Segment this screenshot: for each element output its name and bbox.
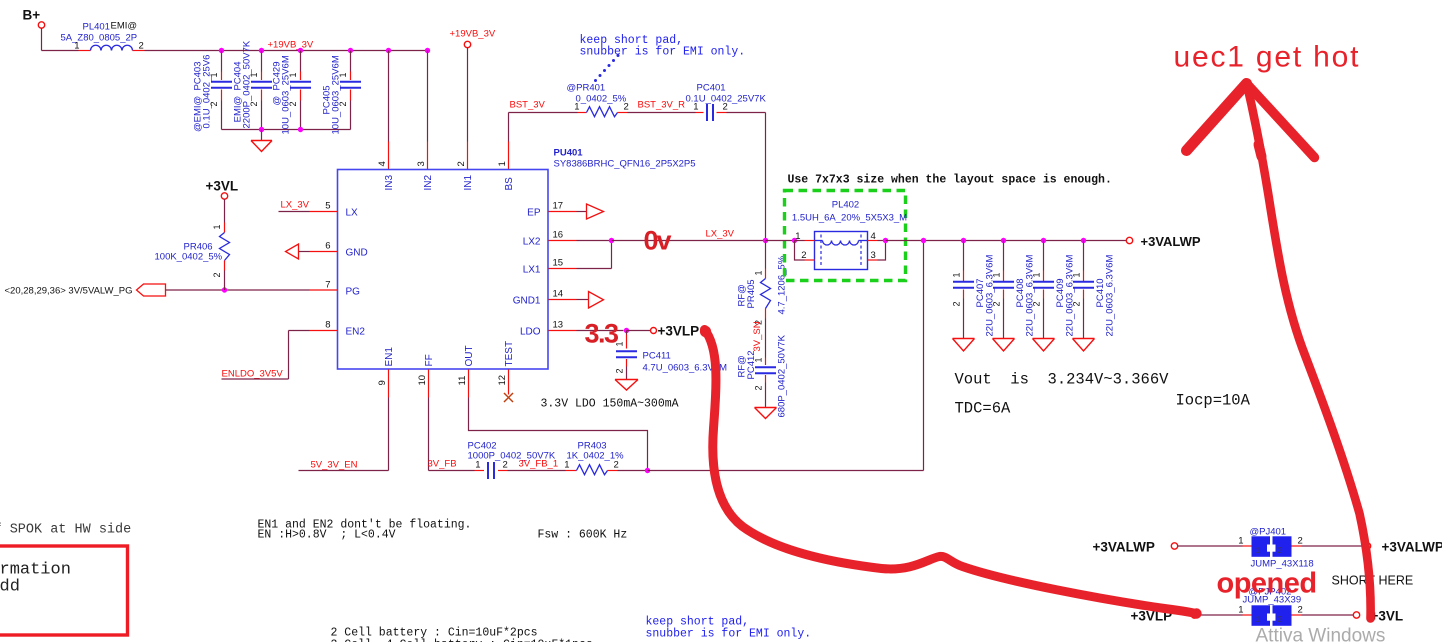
net label BST_3V bbox=[510, 100, 546, 111]
svg-text:LX1: LX1 bbox=[523, 265, 541, 276]
ground PC411 bbox=[615, 380, 638, 391]
net label 5V_3V_EN bbox=[299, 460, 389, 471]
ground input caps bbox=[251, 130, 272, 152]
svg-text:1: 1 bbox=[212, 224, 222, 229]
wire PL402 pin2 link bbox=[795, 241, 815, 261]
note info box bbox=[0, 546, 128, 635]
svg-text:2: 2 bbox=[754, 385, 764, 390]
capacitor PC404 bbox=[233, 40, 273, 129]
svg-text:GND1: GND1 bbox=[513, 296, 541, 307]
wire PR403 to FB node bbox=[608, 470, 648, 472]
pin 3 IN2 bbox=[416, 161, 434, 190]
note Fsw bbox=[538, 529, 628, 542]
power terminal +3VLP bbox=[651, 324, 700, 339]
svg-text:2: 2 bbox=[614, 460, 619, 471]
svg-text:2: 2 bbox=[992, 301, 1002, 306]
off-page connector 3V/5VALW_PG bbox=[5, 284, 338, 297]
svg-text:PL402: PL402 bbox=[832, 200, 859, 211]
wire OUT pin11 bbox=[469, 370, 648, 471]
note TDC bbox=[955, 400, 1012, 418]
svg-text:3: 3 bbox=[871, 250, 876, 261]
power terminal +3VL bbox=[1353, 609, 1403, 624]
pin 9 EN1 bbox=[377, 347, 395, 386]
svg-text:2: 2 bbox=[624, 102, 629, 113]
svg-text:3V_SN: 3V_SN bbox=[752, 321, 763, 351]
node junction on rail x427 bbox=[425, 48, 430, 53]
svg-text:3: 3 bbox=[416, 161, 427, 166]
node junction on rail x350 bbox=[348, 48, 353, 53]
svg-text:PC411: PC411 bbox=[643, 351, 671, 362]
note keep short pad top bbox=[580, 34, 746, 59]
wire EN1 pin9 bbox=[388, 370, 390, 471]
node junction FB tap bbox=[921, 238, 926, 243]
wire rail to IN2 bbox=[427, 51, 429, 170]
resistor PR403 bbox=[564, 441, 624, 475]
svg-text:6: 6 bbox=[325, 241, 330, 252]
svg-text:PR405: PR405 bbox=[746, 279, 757, 308]
svg-text:1: 1 bbox=[564, 460, 569, 471]
wire PL402 pin4 stub bbox=[868, 240, 886, 242]
power terminal +3VALWP left bbox=[1093, 540, 1178, 555]
pin 1 BS bbox=[497, 161, 515, 190]
pin 8 EN2 bbox=[325, 320, 365, 338]
annotation arrowhead right bbox=[1247, 84, 1315, 158]
highlight box PL402 bbox=[785, 191, 906, 281]
wire BS pin to PR401 bbox=[509, 113, 587, 170]
node junction PL402 pin1 bbox=[792, 238, 797, 243]
svg-text:1: 1 bbox=[74, 41, 79, 52]
node junction LDO bbox=[624, 328, 629, 333]
capacitor PC408 bbox=[992, 241, 1036, 339]
svg-text:5: 5 bbox=[325, 201, 330, 212]
svg-text:IN2: IN2 bbox=[423, 175, 434, 191]
node junction PC410 bbox=[1081, 238, 1086, 243]
svg-text:1: 1 bbox=[1238, 536, 1243, 547]
arrow pin17 EP bbox=[549, 204, 604, 219]
annotation 3.3 bbox=[585, 319, 620, 349]
svg-text:BST_3V: BST_3V bbox=[510, 100, 546, 111]
node junction bottom rail x300 bbox=[298, 127, 303, 132]
jumper PJ401 bbox=[1238, 527, 1314, 570]
svg-text:GND: GND bbox=[346, 248, 368, 259]
svg-text:dd: dd bbox=[0, 578, 20, 597]
capacitor PC405 bbox=[322, 51, 362, 135]
node junction on rail x300 bbox=[298, 48, 303, 53]
wire LDO to +3VLP bbox=[627, 330, 651, 332]
svg-text:1: 1 bbox=[693, 102, 698, 113]
svg-text:PU401: PU401 bbox=[554, 148, 584, 159]
svg-text:Use 7x7x3 size when the layout: Use 7x7x3 size when the layout space is … bbox=[788, 174, 1112, 187]
wire LX to PL402 pin1 bbox=[766, 240, 795, 242]
svg-text:100K_0402_5%: 100K_0402_5% bbox=[155, 252, 223, 263]
svg-text:2: 2 bbox=[1298, 605, 1303, 616]
svg-text:TEST: TEST bbox=[504, 341, 515, 367]
svg-text:680P_0402_50V7K: 680P_0402_50V7K bbox=[777, 334, 788, 417]
annotation arrowhead left bbox=[1187, 84, 1247, 151]
wire PL401 to +19VB_3V rail bbox=[133, 50, 428, 52]
resistor PR401 bbox=[567, 83, 629, 117]
pin 6 GND bbox=[325, 241, 368, 259]
node junction PC407 bbox=[961, 238, 966, 243]
svg-text:2: 2 bbox=[952, 301, 962, 306]
resistor PR406 bbox=[155, 199, 230, 290]
svg-text:1: 1 bbox=[475, 460, 480, 471]
inductor PL401 bbox=[61, 21, 144, 52]
arrow pin14 GND1 bbox=[549, 292, 604, 309]
ground PC407 bbox=[953, 339, 975, 352]
capacitor PC401 bbox=[686, 83, 767, 122]
ground PC412 bbox=[755, 408, 777, 419]
svg-text:PL401: PL401 bbox=[83, 22, 110, 33]
svg-text:IN1: IN1 bbox=[463, 175, 474, 191]
svg-text:@PJ401: @PJ401 bbox=[1250, 527, 1287, 538]
svg-text:FF: FF bbox=[424, 354, 435, 366]
svg-text:+19VB_3V: +19VB_3V bbox=[268, 40, 314, 51]
pin 12 TEST no-connect bbox=[504, 370, 513, 403]
svg-text:ENLDO_3V5V: ENLDO_3V5V bbox=[222, 369, 284, 380]
svg-text:22U_0603_6.3V6M: 22U_0603_6.3V6M bbox=[1025, 255, 1036, 337]
wire PR401 to PC401 bbox=[618, 112, 704, 114]
svg-text:16: 16 bbox=[553, 230, 564, 241]
svg-text:1: 1 bbox=[1238, 605, 1243, 616]
svg-text:EMI@: EMI@ bbox=[111, 21, 138, 32]
svg-text:Vout is 3.234V~3.366V: Vout is 3.234V~3.366V bbox=[955, 371, 1170, 389]
svg-text:3V_FB_1: 3V_FB_1 bbox=[519, 459, 559, 470]
svg-text:10U_0603_25V6M: 10U_0603_25V6M bbox=[281, 55, 292, 134]
svg-text:Iocp=10A: Iocp=10A bbox=[1176, 392, 1251, 410]
svg-text:uec1 get hot: uec1 get hot bbox=[1174, 41, 1361, 74]
power terminal +3VLP bottom bbox=[1131, 609, 1198, 624]
net label ENLDO_3V5V bbox=[222, 331, 338, 380]
pin 11 OUT bbox=[457, 345, 475, 385]
svg-text:EP: EP bbox=[527, 208, 541, 219]
svg-text:LDO: LDO bbox=[520, 327, 541, 338]
svg-text:2: 2 bbox=[1298, 536, 1303, 547]
annotation opened bbox=[1217, 568, 1317, 600]
svg-text:1: 1 bbox=[574, 102, 579, 113]
svg-text:5A_Z80_0805_2P: 5A_Z80_0805_2P bbox=[61, 33, 138, 44]
svg-text:7: 7 bbox=[325, 280, 330, 291]
svg-text:opened: opened bbox=[1217, 568, 1317, 600]
pin 4 IN3 bbox=[377, 161, 395, 190]
svg-text:3 Cell, 4 Cell battery : Cin=1: 3 Cell, 4 Cell battery : Cin=10uF*1pcs bbox=[331, 639, 593, 642]
wire PJ401 to +3VALW bbox=[1292, 545, 1365, 547]
wire +3VALWP to PJ401 bbox=[1178, 545, 1252, 547]
svg-text:2: 2 bbox=[1032, 301, 1042, 306]
wire +19VB_3V to IN1 bbox=[467, 48, 469, 170]
wire B+ to PL401 bbox=[42, 28, 91, 50]
wire PC402 to PR403 bbox=[498, 470, 577, 472]
net label LX_3V pin5 bbox=[279, 200, 338, 212]
svg-text:3V_FB: 3V_FB bbox=[428, 459, 457, 470]
svg-text:1: 1 bbox=[497, 161, 508, 166]
svg-text:22U_0603_6.3V6M: 22U_0603_6.3V6M bbox=[1065, 255, 1076, 337]
svg-text:1: 1 bbox=[1256, 545, 1261, 555]
wire PJP402 to +3VL bbox=[1292, 614, 1354, 616]
svg-text:1: 1 bbox=[992, 272, 1002, 277]
ground PC409 bbox=[1033, 339, 1055, 352]
svg-text:2: 2 bbox=[1072, 301, 1082, 306]
pin 14 GND1 bbox=[513, 289, 563, 307]
svg-text:0_0402_5%: 0_0402_5% bbox=[576, 94, 627, 105]
ground arrow pin6 GND bbox=[286, 244, 338, 259]
svg-text:2200P_0402_50V7K: 2200P_0402_50V7K bbox=[242, 40, 253, 128]
annotation swoosh bbox=[700, 326, 1202, 619]
pin 2 IN1 bbox=[456, 161, 474, 190]
svg-text:IN3: IN3 bbox=[384, 175, 395, 191]
node junction bottom rail x261 bbox=[259, 127, 264, 132]
svg-text:+3VL: +3VL bbox=[1371, 609, 1404, 624]
svg-text:14: 14 bbox=[553, 289, 564, 300]
wire LX1 pin15 bbox=[549, 241, 612, 269]
capacitor PC407 bbox=[952, 241, 996, 339]
wire PC401 to LX node bbox=[717, 113, 766, 241]
ground PC408 bbox=[993, 339, 1015, 352]
svg-text:8: 8 bbox=[325, 320, 330, 331]
svg-text:2: 2 bbox=[503, 460, 508, 471]
wire PL402 pin3 link bbox=[868, 241, 886, 261]
svg-text:1: 1 bbox=[1072, 272, 1082, 277]
svg-text:2: 2 bbox=[212, 272, 222, 277]
node junction on rail x261 bbox=[259, 48, 264, 53]
pin 10 FF bbox=[417, 354, 435, 385]
svg-text:10U_0603_25V6M: 10U_0603_25V6M bbox=[331, 55, 342, 134]
svg-text:2: 2 bbox=[723, 102, 728, 113]
svg-text:22U_0603_6.3V6M: 22U_0603_6.3V6M bbox=[985, 255, 996, 337]
svg-text:4.7_1206_5%: 4.7_1206_5% bbox=[777, 255, 788, 314]
svg-text:EN2: EN2 bbox=[346, 327, 366, 338]
svg-text:PG: PG bbox=[346, 287, 361, 298]
svg-text:OUT: OUT bbox=[464, 345, 475, 366]
svg-text:0.1U_0402_25V6: 0.1U_0402_25V6 bbox=[202, 55, 213, 129]
svg-text:EN1: EN1 bbox=[384, 347, 395, 367]
svg-text:<20,28,29,36> 3V/5VALW_PG: <20,28,29,36> 3V/5VALW_PG bbox=[5, 286, 133, 297]
svg-text:+19VB_3V: +19VB_3V bbox=[450, 29, 496, 40]
svg-text:BS: BS bbox=[504, 177, 515, 191]
annotation 0v bbox=[644, 226, 672, 256]
svg-text:9: 9 bbox=[377, 380, 388, 385]
svg-text:3.3V LDO 150mA~300mA: 3.3V LDO 150mA~300mA bbox=[541, 398, 679, 411]
svg-text:15: 15 bbox=[553, 258, 564, 269]
wire FB to output rail bbox=[648, 241, 924, 471]
svg-text:LX: LX bbox=[346, 208, 359, 219]
note SPOK bbox=[0, 523, 131, 538]
wire PL402 pin1 stub bbox=[795, 240, 815, 242]
node junction LX x611 bbox=[609, 238, 614, 243]
svg-text:Fsw : 600K Hz: Fsw : 600K Hz bbox=[538, 529, 628, 542]
node junction on rail x388 bbox=[386, 48, 391, 53]
svg-text:5V_3V_EN: 5V_3V_EN bbox=[311, 460, 358, 471]
svg-text:1: 1 bbox=[1032, 272, 1042, 277]
capacitor PC410 bbox=[1072, 241, 1116, 339]
jumper PJP402 bbox=[1238, 587, 1303, 626]
svg-text:@PR401: @PR401 bbox=[567, 83, 606, 94]
node junction on rail x221 bbox=[219, 48, 224, 53]
annotation uec1 get hot bbox=[1174, 41, 1361, 74]
wire rail to IN3 bbox=[388, 51, 390, 170]
wire FF pin10 bbox=[428, 370, 430, 471]
svg-text:PC401: PC401 bbox=[697, 83, 726, 94]
net label 3V_SN bbox=[752, 319, 766, 358]
svg-text:TDC=6A: TDC=6A bbox=[955, 400, 1012, 418]
svg-text:1: 1 bbox=[754, 270, 764, 275]
power terminal +3VALW bbox=[1364, 540, 1442, 555]
svg-text:2: 2 bbox=[1278, 614, 1283, 624]
svg-text:3.3: 3.3 bbox=[585, 319, 620, 349]
svg-text:+3VALWP: +3VALWP bbox=[1141, 234, 1201, 249]
wire LX2 pin16 bbox=[549, 240, 612, 242]
inductor PL402 bbox=[792, 200, 907, 270]
svg-text:PC412: PC412 bbox=[746, 350, 757, 379]
net label 3V_FB_1 bbox=[519, 459, 559, 470]
node junction LX/snubber bbox=[763, 238, 768, 243]
svg-text:1: 1 bbox=[1256, 614, 1261, 624]
capacitor PC429 bbox=[272, 51, 312, 135]
svg-text:f SPOK at HW side: f SPOK at HW side bbox=[0, 523, 131, 538]
pin 5 LX bbox=[325, 201, 358, 219]
watermark Attiva Windows bbox=[1256, 626, 1386, 642]
node junction PC409 bbox=[1041, 238, 1046, 243]
net label +19VB_3V bbox=[268, 40, 314, 51]
svg-text:snubber is for EMI only.: snubber is for EMI only. bbox=[646, 628, 812, 641]
net label LX_3V pin16 bbox=[706, 229, 735, 240]
capacitor PC411 bbox=[615, 331, 728, 380]
svg-text:0v: 0v bbox=[644, 226, 672, 256]
pin 7 PG bbox=[325, 280, 360, 298]
capacitor PC412 bbox=[737, 334, 788, 417]
note use 7x7x3 bbox=[788, 174, 1112, 187]
node junction PG/PR406 bbox=[222, 287, 227, 292]
note EN floating bbox=[258, 519, 472, 542]
svg-text:2: 2 bbox=[1278, 545, 1283, 555]
pin 16 LX2 bbox=[523, 230, 563, 248]
note Iocp bbox=[1176, 392, 1251, 410]
svg-text:11: 11 bbox=[457, 376, 468, 386]
note Vout bbox=[955, 371, 1170, 389]
node junction PL402 pin4 bbox=[883, 238, 888, 243]
power terminal +3VALWP out bbox=[1126, 234, 1201, 249]
pin 12 TEST bbox=[497, 341, 515, 386]
svg-text:snubber is for EMI only.: snubber is for EMI only. bbox=[580, 46, 746, 59]
node junction PC408 bbox=[1001, 238, 1006, 243]
resistor PR405 bbox=[737, 241, 788, 326]
note keep short pad bottom bbox=[646, 616, 812, 641]
power terminal +3VL bbox=[206, 179, 239, 200]
svg-text:LX2: LX2 bbox=[523, 237, 541, 248]
svg-text:12: 12 bbox=[497, 375, 508, 386]
svg-text:17: 17 bbox=[553, 201, 564, 212]
svg-text:1: 1 bbox=[952, 272, 962, 277]
wire +3VLP to PJP402 bbox=[1198, 614, 1252, 616]
wire LX rail bbox=[612, 240, 766, 242]
svg-text:B+: B+ bbox=[23, 8, 41, 23]
svg-text:22U_0603_6.3V6M: 22U_0603_6.3V6M bbox=[1105, 255, 1116, 337]
wire cap bank bottom rail bbox=[222, 129, 351, 131]
svg-text:SY8386BRHC_QFN16_2P5X2P5: SY8386BRHC_QFN16_2P5X2P5 bbox=[554, 159, 696, 170]
svg-text:10: 10 bbox=[417, 375, 428, 386]
power terminal +19VB_3V bbox=[450, 29, 496, 48]
annotation arrow shaft bbox=[1247, 83, 1371, 619]
svg-text:2: 2 bbox=[456, 161, 467, 166]
ground PC410 bbox=[1073, 339, 1095, 352]
net label BST_3V_R bbox=[638, 100, 686, 111]
svg-text:EN :H>0.8V ; L<0.4V: EN :H>0.8V ; L<0.4V bbox=[258, 529, 396, 542]
wire output rail bbox=[886, 240, 1127, 242]
note SHORT HERE bbox=[1332, 574, 1414, 588]
op-amp U1 regulator PU401 body bbox=[338, 148, 696, 370]
node junction FB bbox=[645, 468, 650, 473]
net label 3V_FB bbox=[428, 459, 485, 471]
dotted leader line bbox=[594, 54, 620, 82]
svg-text:2: 2 bbox=[139, 41, 144, 52]
power terminal B+ bbox=[23, 8, 45, 29]
svg-text:13: 13 bbox=[553, 320, 564, 331]
svg-text:+3VALWP: +3VALWP bbox=[1093, 540, 1155, 555]
pin 17 EP bbox=[527, 201, 563, 219]
capacitor PC409 bbox=[1032, 241, 1076, 339]
svg-text:2: 2 bbox=[615, 368, 625, 373]
note cell battery bbox=[331, 627, 593, 642]
pin 13 LDO bbox=[520, 320, 563, 338]
pin 15 LX1 bbox=[523, 258, 563, 276]
svg-text:Attiva Windows: Attiva Windows bbox=[1256, 626, 1386, 642]
capacitor PC403 bbox=[193, 51, 233, 133]
svg-text:BST_3V_R: BST_3V_R bbox=[638, 100, 686, 111]
svg-text:LX_3V: LX_3V bbox=[281, 200, 310, 211]
svg-text:+3VALWP: +3VALWP bbox=[1382, 540, 1442, 555]
svg-text:+3VL: +3VL bbox=[206, 179, 239, 194]
note 3.3V LDO bbox=[541, 398, 679, 411]
svg-text:4: 4 bbox=[377, 161, 388, 166]
svg-text:1.5UH_6A_20%_5X5X3_M: 1.5UH_6A_20%_5X5X3_M bbox=[792, 213, 907, 224]
svg-text:LX_3V: LX_3V bbox=[706, 229, 735, 240]
capacitor PC402 bbox=[468, 441, 556, 480]
wire LDO pin13 bbox=[549, 330, 624, 332]
svg-text:+3VLP: +3VLP bbox=[658, 324, 700, 339]
svg-text:2: 2 bbox=[801, 250, 806, 261]
